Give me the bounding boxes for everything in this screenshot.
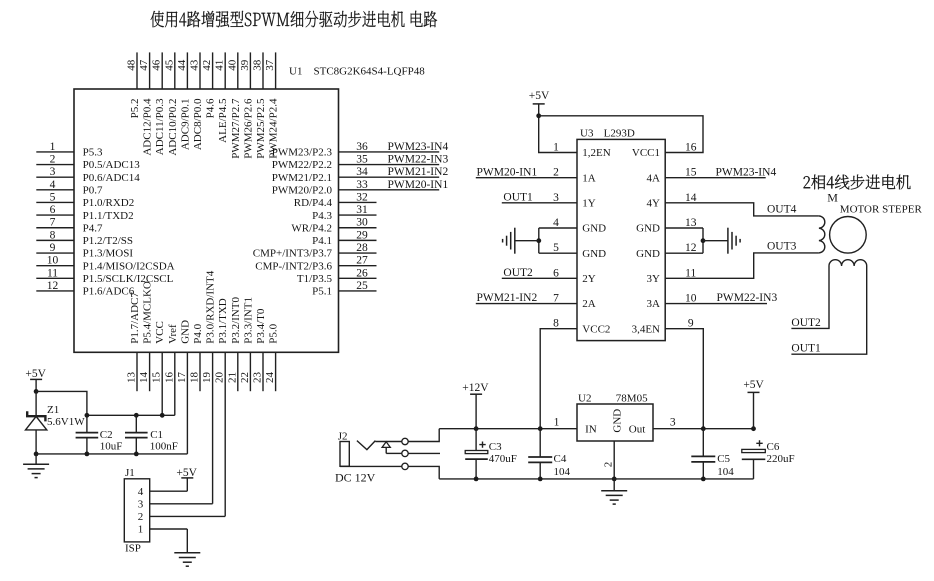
svg-text:M: M: [827, 191, 838, 205]
svg-text:3Y: 3Y: [647, 273, 661, 285]
svg-text:P1.6/ADC6: P1.6/ADC6: [83, 286, 135, 298]
J1 pin 4: [138, 486, 188, 498]
capacitor C4 104: [528, 429, 570, 479]
svg-text:ADC9/P0.1: ADC9/P0.1: [179, 99, 191, 151]
svg-text:+5V: +5V: [176, 467, 197, 479]
U1 pin 44 ADC9/P0.1: [176, 52, 192, 150]
U1 pin 1 P5.3: [36, 141, 103, 159]
J1 pin 2: [138, 511, 225, 523]
svg-text:45: 45: [163, 59, 175, 71]
svg-text:25: 25: [356, 280, 368, 292]
U1 pin 16 Vref: [163, 324, 179, 415]
wire winding B right to OUT1: [791, 266, 866, 354]
node VCC pin15 junction: [160, 413, 165, 418]
node zener anode junction: [34, 452, 39, 457]
svg-text:4: 4: [50, 179, 56, 191]
svg-text:IN: IN: [585, 424, 597, 436]
svg-text:4: 4: [138, 486, 144, 498]
U1 pin 2 P0.5/ADC13: [36, 154, 140, 172]
svg-text:VCC1: VCC1: [632, 147, 660, 159]
svg-text:C4: C4: [554, 453, 567, 465]
U1 pin 27 CMP-/INT2/P3.6: [255, 255, 376, 273]
svg-text:STC8G2K64S4-LQFP48: STC8G2K64S4-LQFP48: [314, 66, 426, 78]
U1 pin 41 ALE/P4.5: [214, 52, 230, 142]
U1 pin 10 P1.4/MISO/I2CSDA: [36, 255, 174, 273]
svg-text:21: 21: [226, 372, 238, 383]
svg-text:P4.6: P4.6: [205, 98, 217, 118]
svg-text:GND: GND: [636, 223, 660, 235]
motor label 2相4线步进电机: [804, 175, 911, 190]
U3 pin 11 3Y net OUT3: [647, 241, 819, 285]
svg-text:PWM25/P2.5: PWM25/P2.5: [255, 98, 267, 159]
U1 pin 6 P1.1/TXD2: [36, 204, 133, 222]
svg-text:29: 29: [356, 229, 368, 241]
power +5V symbol (U3): [529, 90, 550, 116]
wire J2 power contact to +12V rail: [408, 429, 439, 442]
U2 pin 1 wire +12V rail: [439, 417, 577, 429]
connector J2 DC jack: [335, 431, 408, 485]
node C3 bottom junction: [474, 477, 479, 482]
svg-text:ALE/P4.5: ALE/P4.5: [217, 98, 229, 143]
svg-text:10: 10: [47, 255, 59, 267]
svg-text:C2: C2: [100, 429, 113, 441]
svg-text:P0.5/ADC13: P0.5/ADC13: [83, 159, 141, 171]
ground symbol (U3 right): [728, 228, 740, 254]
svg-text:11: 11: [685, 267, 696, 279]
svg-text:6: 6: [553, 267, 559, 279]
U3 pin 3 1Y net OUT1: [502, 192, 596, 210]
svg-text:OUT1: OUT1: [503, 192, 533, 204]
svg-text:P5.4/MCLKO: P5.4/MCLKO: [142, 281, 154, 344]
svg-text:Z1: Z1: [47, 404, 59, 416]
svg-text:14: 14: [685, 192, 697, 204]
motor winding A (vertical coil): [819, 216, 825, 253]
microcontroller U1 STC8G2K64S4-LQFP48 body: [74, 89, 339, 352]
U1 pin 23 P3.4/T0: [252, 308, 268, 391]
node C2 bottom junction: [85, 452, 90, 457]
svg-text:P1.2/T2/SS: P1.2/T2/SS: [83, 235, 133, 247]
svg-text:5: 5: [553, 242, 559, 254]
svg-text:20: 20: [214, 372, 226, 384]
U1 pin 14 P5.4/MCLKO: [138, 281, 154, 391]
U3 pin 7 2A net PWM21-IN2: [476, 292, 596, 310]
svg-text:7: 7: [553, 293, 559, 305]
U3 pin 12 GND: [636, 242, 703, 260]
wire winding B left to OUT2: [791, 266, 829, 328]
node C4 bottom junction: [538, 477, 543, 482]
svg-text:PWM23/P2.3: PWM23/P2.3: [272, 147, 333, 159]
svg-text:C6: C6: [767, 441, 780, 453]
svg-text:PWM21-IN2: PWM21-IN2: [477, 292, 538, 304]
svg-text:100nF: 100nF: [150, 440, 178, 452]
svg-text:24: 24: [264, 372, 276, 384]
power +5V symbol (J1): [176, 467, 197, 491]
svg-text:ADC12/P0.4: ADC12/P0.4: [142, 98, 154, 156]
svg-text:CMP+/INT3/P3.7: CMP+/INT3/P3.7: [253, 248, 333, 260]
svg-text:P4.7: P4.7: [83, 222, 103, 234]
svg-text:1: 1: [553, 142, 559, 154]
U1 pin 26 T1/P3.5: [297, 267, 377, 285]
svg-text:PWM22-IN3: PWM22-IN3: [717, 292, 778, 304]
svg-text:P1.5/SCLK/I2CSCL: P1.5/SCLK/I2CSCL: [83, 273, 174, 285]
svg-text:1Y: 1Y: [582, 198, 596, 210]
U1 pin 22 P3.3/INT1: [239, 297, 255, 391]
svg-text:OUT2: OUT2: [791, 317, 821, 329]
svg-text:46: 46: [151, 59, 163, 71]
svg-text:36: 36: [356, 141, 368, 153]
svg-text:48: 48: [126, 59, 138, 71]
svg-text:P1.1/TXD2: P1.1/TXD2: [83, 210, 134, 222]
node U3 +5V junction: [536, 113, 541, 118]
svg-text:OUT2: OUT2: [503, 267, 533, 279]
U1 pin 30 WR/P4.2: [291, 217, 376, 235]
svg-text:9: 9: [50, 242, 56, 254]
svg-text:OUT1: OUT1: [791, 343, 821, 355]
svg-text:13: 13: [126, 372, 138, 384]
svg-text:12: 12: [47, 280, 59, 292]
svg-text:+5V: +5V: [25, 368, 46, 380]
svg-text:ADC11/P0.3: ADC11/P0.3: [154, 98, 166, 155]
svg-text:+12V: +12V: [462, 382, 489, 394]
svg-text:+5V: +5V: [529, 90, 550, 102]
svg-text:14: 14: [138, 372, 150, 384]
svg-text:Vref: Vref: [167, 324, 179, 344]
U1 pin 40 PWM27/P2.7: [226, 52, 242, 158]
U1 pin 3 P0.6/ADC14: [36, 166, 140, 184]
svg-text:P1.4/MISO/I2CSDA: P1.4/MISO/I2CSDA: [83, 260, 175, 272]
U1 pin 4 P0.7: [36, 179, 103, 197]
svg-text:2: 2: [553, 167, 559, 179]
svg-text:1: 1: [50, 141, 56, 153]
svg-text:PWM23-IN4: PWM23-IN4: [716, 166, 777, 178]
svg-text:GND: GND: [636, 248, 660, 260]
wire ground rail: [36, 453, 187, 455]
svg-text:32: 32: [356, 191, 368, 203]
U1 pin 28 CMP+/INT3/P3.7: [253, 242, 377, 260]
node C2 top junction: [85, 413, 90, 418]
capacitor C1 100nF: [125, 415, 178, 454]
node C6 top junction: [751, 426, 756, 431]
svg-text:1: 1: [554, 417, 560, 429]
driver U3 L293D body: [577, 139, 665, 340]
ground symbol (left rail): [23, 454, 49, 478]
svg-text:2: 2: [50, 154, 56, 166]
U1 pin 8 P1.2/T2/SS: [36, 229, 133, 247]
svg-text:P4.0: P4.0: [192, 323, 204, 343]
svg-text:GND: GND: [179, 320, 191, 344]
svg-text:ISP: ISP: [125, 543, 141, 555]
svg-text:23: 23: [252, 372, 264, 384]
title text 使用4路增强型SPWM细分驱动步进电机电路: [151, 11, 437, 28]
wire +5V to C2 rail: [36, 391, 87, 415]
svg-text:37: 37: [264, 59, 276, 71]
svg-text:MOTOR STEPER: MOTOR STEPER: [840, 203, 923, 215]
svg-text:J1: J1: [125, 467, 135, 479]
svg-text:U1: U1: [289, 66, 302, 78]
U1 pin 20 P3.1/TXD: [214, 298, 230, 516]
U1 pin 24 P5.0: [264, 323, 280, 391]
U1 pin 36 PWM23/P2.3: [272, 141, 449, 159]
svg-text:C1: C1: [150, 429, 163, 441]
svg-text:OUT4: OUT4: [767, 204, 797, 216]
svg-text:3: 3: [50, 166, 56, 178]
wire +5V to VCC1: [539, 116, 703, 153]
U1 pin 42 P4.6: [201, 52, 217, 118]
U1 pin 32 RD/P4.4: [294, 191, 377, 209]
svg-text:PWM24/P2.4: PWM24/P2.4: [268, 98, 280, 159]
svg-text:PWM22/P2.2: PWM22/P2.2: [272, 159, 332, 171]
svg-text:13: 13: [685, 217, 697, 229]
svg-text:C5: C5: [717, 453, 730, 465]
svg-text:GND: GND: [612, 409, 624, 433]
capacitor C6 220uF (electrolytic): [742, 440, 795, 479]
svg-text:39: 39: [239, 59, 251, 71]
U1 pin 37 PWM24/P2.4: [264, 52, 280, 158]
svg-text:PWM21/P2.1: PWM21/P2.1: [272, 172, 332, 184]
svg-text:16: 16: [685, 142, 697, 154]
U1 pin 38 PWM25/P2.5: [252, 52, 268, 158]
U1 pin 7 P4.7: [36, 217, 103, 235]
svg-text:P1.7/ADC7: P1.7/ADC7: [129, 292, 141, 344]
U1 pin 15 VCC: [151, 321, 167, 415]
svg-text:31: 31: [356, 204, 368, 216]
svg-text:10uF: 10uF: [100, 440, 123, 452]
node +5V junction: [34, 389, 39, 394]
svg-text:P3.2/INT0: P3.2/INT0: [230, 297, 242, 344]
svg-text:47: 47: [138, 59, 150, 71]
U3 pin 6 2Y net OUT2: [502, 267, 596, 285]
U1 pin 9 P1.3/MOSI: [36, 242, 133, 260]
U3 pin 16 VCC1: [632, 142, 697, 160]
U1 pin 17 GND: [176, 320, 192, 454]
svg-text:8: 8: [553, 318, 559, 330]
U1 pin 46 ADC11/P0.3: [151, 52, 167, 155]
U3 pin 2 1A net PWM20-IN1: [476, 166, 596, 184]
svg-text:+5V: +5V: [743, 379, 764, 391]
svg-text:OUT3: OUT3: [767, 241, 797, 253]
svg-text:3A: 3A: [647, 298, 661, 310]
node C4 top junction: [538, 426, 543, 431]
U3 pin 13 GND: [636, 217, 703, 235]
node C1 bottom junction: [134, 452, 139, 457]
svg-text:4Y: 4Y: [647, 198, 661, 210]
U3 pin 10 3A net PWM22-IN3: [647, 292, 778, 310]
svg-text:5.6V1W: 5.6V1W: [47, 416, 85, 428]
J1 pin 1: [138, 524, 188, 536]
svg-text:GND: GND: [582, 248, 606, 260]
regulator U2 78M05 body: [577, 404, 653, 441]
capacitor C2 10uF: [76, 415, 123, 454]
svg-text:12: 12: [685, 242, 697, 254]
U1 pin 45 ADC10/P0.2: [163, 52, 179, 155]
svg-text:10: 10: [685, 293, 697, 305]
svg-text:3: 3: [138, 499, 144, 511]
svg-text:PWM27/P2.7: PWM27/P2.7: [230, 98, 242, 159]
U1 pin 25 P5.1: [312, 280, 376, 298]
U1 pin 13 P1.7/ADC7: [126, 292, 142, 392]
svg-text:8: 8: [50, 229, 56, 241]
svg-text:42: 42: [201, 60, 213, 71]
svg-text:PWM21-IN2: PWM21-IN2: [388, 166, 449, 178]
svg-text:104: 104: [554, 466, 571, 478]
svg-text:4: 4: [553, 217, 559, 229]
svg-text:19: 19: [201, 372, 213, 384]
U1 pin 34 PWM21/P2.1: [272, 166, 449, 184]
svg-text:PWM22-IN3: PWM22-IN3: [388, 154, 449, 166]
ground symbol (U3 left): [503, 228, 515, 254]
svg-text:PWM20/P2.0: PWM20/P2.0: [272, 185, 333, 197]
svg-text:RD/P4.4: RD/P4.4: [294, 197, 333, 209]
svg-text:1,2EN: 1,2EN: [582, 147, 610, 159]
wire supply ground rail: [439, 478, 753, 480]
wire U3 pins 13-12 gnd tie: [702, 228, 704, 253]
wire to left ground: [515, 240, 539, 242]
node U3 left gnd junction: [536, 238, 541, 243]
U1 pin 47 ADC12/P0.4: [138, 52, 154, 155]
U1 pin 48 P5.2: [126, 52, 142, 118]
svg-text:11: 11: [47, 267, 58, 279]
svg-text:30: 30: [356, 217, 368, 229]
node C5 top junction: [701, 426, 706, 431]
svg-text:2Y: 2Y: [582, 273, 596, 285]
svg-text:3,4EN: 3,4EN: [632, 323, 660, 335]
capacitor C3 470uF (electrolytic): [465, 429, 517, 479]
svg-text:26: 26: [356, 267, 368, 279]
svg-text:27: 27: [356, 255, 368, 267]
svg-text:4A: 4A: [647, 172, 661, 184]
svg-text:3: 3: [670, 417, 676, 429]
motor body circle: [830, 217, 867, 254]
U1 pin 39 PWM26/P2.6: [239, 52, 255, 158]
node U2 gnd junction: [612, 477, 617, 482]
J1 pin 3: [138, 499, 213, 511]
svg-text:P4.3: P4.3: [312, 210, 332, 222]
svg-text:P3.3/INT1: P3.3/INT1: [242, 297, 254, 344]
svg-text:15: 15: [151, 372, 163, 384]
U1 pin 18 P4.0: [189, 323, 205, 391]
svg-text:P1.0/RXD2: P1.0/RXD2: [83, 197, 135, 209]
svg-text:L293D: L293D: [604, 128, 635, 140]
node +12V junction: [474, 426, 479, 431]
capacitor C5 104: [691, 429, 734, 479]
svg-text:WR/P4.2: WR/P4.2: [291, 222, 332, 234]
svg-text:44: 44: [176, 59, 188, 71]
svg-text:C3: C3: [489, 441, 502, 453]
svg-text:33: 33: [356, 179, 368, 191]
svg-text:41: 41: [214, 60, 226, 71]
svg-text:470uF: 470uF: [489, 453, 517, 465]
svg-text:P5.1: P5.1: [312, 286, 332, 298]
svg-text:6: 6: [50, 204, 56, 216]
svg-text:P3.4/T0: P3.4/T0: [255, 308, 267, 344]
svg-text:1: 1: [138, 524, 144, 536]
svg-text:PWM26/P2.6: PWM26/P2.6: [242, 98, 254, 159]
power +5V symbol (left): [25, 368, 46, 391]
ground symbol (J1 pin1): [174, 529, 200, 566]
node C1 top junction: [134, 413, 139, 418]
connector J1 ISP body: [124, 479, 149, 542]
U3 pin 9 3,4EN: [632, 318, 704, 429]
U1 pin 33 PWM20/P2.0: [272, 179, 449, 197]
U2 pin 3 wire +5V rail: [653, 417, 754, 429]
svg-text:1A: 1A: [582, 172, 596, 184]
power +5V symbol (right): [743, 379, 764, 429]
U3 pin 14 4Y net OUT4: [647, 192, 819, 216]
svg-text:22: 22: [239, 372, 251, 383]
U3 pin 15 4A net PWM23-IN4: [647, 166, 777, 184]
svg-text:18: 18: [189, 372, 201, 384]
svg-text:28: 28: [356, 242, 368, 254]
U1 pin 19 P3.0/RXD/INT4: [201, 270, 217, 504]
node U3 right gnd junction: [701, 238, 706, 243]
svg-text:220uF: 220uF: [767, 453, 795, 465]
U1 pin 11 P1.5/SCLK/I2CSCL: [36, 267, 173, 285]
svg-text:7: 7: [50, 217, 56, 229]
U2 pin 2 GND wire: [603, 441, 615, 479]
U1 pin 29 P4.1: [312, 229, 376, 247]
svg-text:17: 17: [176, 372, 188, 384]
svg-text:P3.1/TXD: P3.1/TXD: [217, 298, 229, 344]
svg-text:34: 34: [356, 166, 368, 178]
U3 pin 1 1,2EN: [539, 116, 611, 159]
U1 pin 12 P1.6/ADC6: [36, 280, 134, 298]
svg-text:P5.2: P5.2: [129, 99, 141, 119]
svg-text:40: 40: [226, 59, 238, 71]
U1 pin 21 P3.2/INT0: [226, 297, 242, 392]
svg-text:GND: GND: [582, 223, 606, 235]
U3 pin 8 VCC2: [540, 318, 610, 429]
wire J2 middle contact stub: [408, 452, 440, 454]
svg-text:43: 43: [189, 59, 201, 71]
svg-text:P0.7: P0.7: [83, 185, 103, 197]
U1 pin 35 PWM22/P2.2: [272, 154, 449, 172]
svg-text:P5.3: P5.3: [83, 147, 103, 159]
svg-text:9: 9: [688, 318, 694, 330]
U1 pin 5 P1.0/RXD2: [36, 191, 134, 209]
U1 pin 31 P4.3: [312, 204, 376, 222]
svg-text:2A: 2A: [582, 298, 596, 310]
power +12V symbol: [462, 382, 489, 429]
svg-text:PWM20-IN1: PWM20-IN1: [477, 166, 538, 178]
svg-text:P4.1: P4.1: [312, 235, 332, 247]
wire +5V rail to VCC/Vref pins: [87, 414, 175, 416]
svg-text:P5.0: P5.0: [268, 323, 280, 343]
svg-text:CMP-/INT2/P3.6: CMP-/INT2/P3.6: [255, 260, 332, 272]
svg-text:Out: Out: [629, 424, 646, 436]
svg-text:T1/P3.5: T1/P3.5: [297, 273, 333, 285]
svg-text:16: 16: [163, 372, 175, 384]
svg-text:15: 15: [685, 167, 697, 179]
svg-text:P0.6/ADC14: P0.6/ADC14: [83, 172, 141, 184]
svg-text:ADC8/P0.0: ADC8/P0.0: [192, 98, 204, 150]
svg-text:104: 104: [717, 466, 734, 478]
wire J2 ground contact to ground rail: [408, 466, 439, 479]
svg-text:5: 5: [50, 191, 56, 203]
node C5 bottom junction: [701, 477, 706, 482]
wire U3 pins 4-5 gnd tie: [538, 228, 540, 253]
wire to right ground: [703, 240, 728, 242]
ground symbol (supply): [601, 479, 627, 504]
svg-text:P1.3/MOSI: P1.3/MOSI: [83, 248, 134, 260]
svg-text:VCC2: VCC2: [582, 323, 610, 335]
U3 pin 4 GND: [539, 217, 606, 235]
svg-text:2: 2: [138, 511, 144, 523]
svg-text:2: 2: [603, 462, 615, 468]
svg-text:35: 35: [356, 154, 368, 166]
U1 pin 43 ADC8/P0.0: [189, 52, 205, 150]
svg-text:U3: U3: [580, 128, 594, 140]
svg-text:PWM20-IN1: PWM20-IN1: [388, 179, 449, 191]
